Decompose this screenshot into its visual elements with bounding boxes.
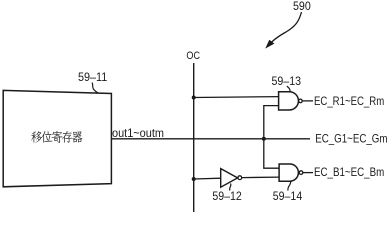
arrow to figure 590 (270, 12, 302, 45)
svg-text:EC_B1~EC_Bm: EC_B1~EC_Bm (314, 165, 384, 179)
NAND gate 59-14 bubble (299, 171, 303, 175)
junction node on OC at top tap (192, 96, 196, 100)
wire OC tap to NAND 59-13 upper input (194, 96, 279, 99)
leader for 59-12 (230, 184, 231, 191)
svg-text:59–12: 59–12 (212, 189, 242, 203)
NAND gate 59-13 body (279, 92, 299, 110)
inverter 59-12 body (221, 169, 238, 188)
wire OC tap to inverter input (194, 177, 221, 180)
svg-text:OC: OC (186, 50, 200, 62)
NAND gate 59-13 bubble (299, 99, 303, 103)
wire OC vertical (193, 63, 195, 212)
NAND gate 59-14 body (279, 164, 298, 181)
wire NAND 59-13 output (302, 100, 313, 102)
svg-text:590: 590 (293, 0, 311, 13)
svg-text:out1~outm: out1~outm (112, 126, 164, 140)
wire data vertical to NAND 59-13 lower input (264, 106, 279, 139)
wire out1~outm from box to EC_G (111, 138, 310, 140)
wire NAND 59-14 output (303, 172, 313, 174)
svg-text:EC_G1~EC_Gm: EC_G1~EC_Gm (315, 132, 387, 146)
svg-text:59–13: 59–13 (272, 74, 302, 88)
leader for 59-14 (288, 182, 291, 191)
leader for 59-13 (287, 86, 290, 92)
leader for 59-11 (92, 83, 98, 94)
svg-text:59–11: 59–11 (78, 70, 108, 84)
wire inverter output to NAND 59-14 lower input (242, 176, 279, 179)
junction node data line (262, 137, 266, 141)
shift register value label (CJK) (31, 131, 82, 143)
junction node on OC at inverter tap (192, 177, 196, 181)
shift register box 59-11 (3, 90, 111, 186)
wire data vertical to NAND 59-14 upper input (264, 139, 279, 168)
svg-text:59–14: 59–14 (273, 189, 303, 203)
inverter 59-12 bubble (238, 176, 242, 180)
svg-text:EC_R1~EC_Rm: EC_R1~EC_Rm (314, 94, 384, 108)
